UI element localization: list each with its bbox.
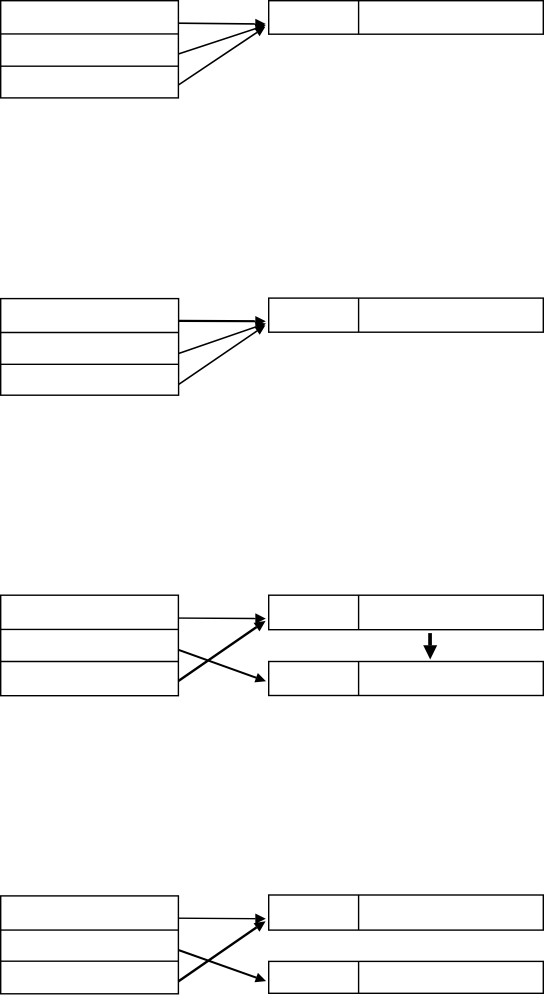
arrow s4 row3 to right table A (bold) (178, 921, 265, 981)
arrow s1 row3 to right table (178, 27, 265, 85)
section 2 right table (2 cells) (269, 298, 544, 332)
section 1 left table (3 rows) (1, 1, 179, 98)
arrow s3 row3 to right table A (bold) (178, 621, 265, 681)
arrow s2 row3 to right table (179, 325, 266, 384)
arrow s4 row1 to right table A (178, 914, 265, 924)
bold down arrow between s3 right tables (423, 633, 437, 659)
arrow s3 row2 to right table B (178, 650, 266, 683)
section 2 left table (3 rows) (1, 299, 179, 396)
arrow s3 row1 to right table A (178, 613, 265, 623)
arrow s1 row1 to right table (178, 19, 265, 29)
arrow s2 row1 to right table (bold) (179, 316, 266, 326)
section 4 right table B (2 cells) (269, 961, 544, 993)
arrow s1 row2 to right table (178, 24, 265, 54)
section 3 right table A (2 cells) (269, 595, 544, 630)
arrow s2 row2 to right table (179, 322, 266, 353)
arrow s4 row2 to right table B (178, 950, 266, 982)
section 4 left table (3 rows) (1, 896, 179, 994)
section 4 right table A (2 cells) (269, 895, 544, 930)
section 1 right table (2 cells) (269, 1, 544, 35)
section 3 right table B (2 cells) (269, 662, 544, 696)
section 3 left table (3 rows) (1, 595, 179, 696)
